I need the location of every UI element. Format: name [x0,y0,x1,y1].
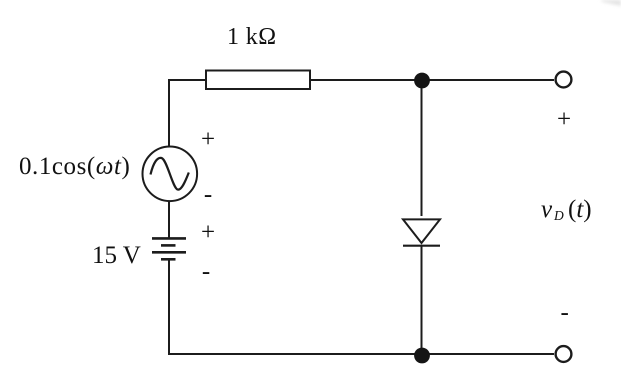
svg-text:v: v [541,196,553,223]
svg-text:0.1cos(ωt): 0.1cos(ωt) [19,153,130,180]
svg-text:-: - [202,258,210,285]
svg-text:+: + [557,106,571,133]
svg-text:-: - [204,181,212,208]
svg-text:1 kΩ: 1 kΩ [227,24,276,50]
svg-text:+: + [201,219,215,246]
svg-text:15 V: 15 V [92,242,141,269]
svg-text:(t): (t) [568,196,592,223]
svg-text:+: + [201,126,215,153]
svg-text:D: D [553,208,564,223]
svg-text:-: - [561,299,569,326]
